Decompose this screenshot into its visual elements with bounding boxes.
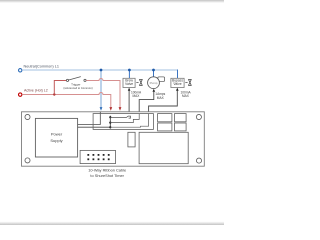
arrow trigger into controller: [119, 107, 122, 111]
mounting hole top-left: [25, 114, 30, 119]
wire neutral drop to pump: [153, 70, 155, 77]
relay contact arm top: [110, 116, 130, 118]
junction bus/controller drop: [100, 69, 103, 72]
component box C1: [128, 132, 135, 147]
wire brew valve to controller: [128, 90, 130, 117]
svg-text:Trigger: Trigger: [71, 82, 80, 86]
junction relay contact 2: [109, 122, 111, 124]
mounting hole bottom-left: [25, 158, 30, 163]
svg-text:to ShureShot Timer: to ShureShot Timer: [90, 173, 124, 178]
svg-text:Pump: Pump: [150, 81, 158, 85]
wire neutral drop to brew valve: [128, 70, 130, 78]
node L1 terminal: [19, 69, 22, 72]
svg-text:MAX: MAX: [133, 94, 141, 98]
switch S1 terminal right: [84, 79, 86, 81]
junction active/trigger branch: [53, 93, 55, 95]
arrow into bypass valve: [176, 88, 179, 91]
wire neutral feed to power supply: [78, 112, 101, 125]
svg-text:MAX: MAX: [157, 96, 165, 100]
switch S1 blade: [69, 77, 81, 80]
arrow into brew valve: [128, 88, 131, 91]
svg-text:MAX: MAX: [182, 94, 190, 98]
wire power supply to relay common: [78, 126, 111, 128]
svg-text:Power: Power: [51, 131, 63, 136]
valve symbol V1: [139, 79, 142, 85]
wire bypass valve to controller: [149, 90, 178, 113]
bypass valve B2: [171, 78, 184, 87]
wire trigger to controller: [86, 79, 120, 108]
terminal block T4: [175, 123, 187, 131]
wire neutral drop to controller: [100, 70, 102, 107]
terminal block T1: [158, 114, 172, 122]
wire neutral drop to bypass valve: [177, 70, 179, 79]
wire neutral bus: [22, 69, 177, 71]
svg-text:Supply: Supply: [50, 138, 62, 143]
connector J1 pins: [87, 154, 109, 160]
svg-text:Valve: Valve: [125, 82, 133, 86]
mounting hole bottom-right: [196, 158, 201, 163]
relay common bar: [109, 116, 111, 129]
wire trigger branch riser: [54, 81, 66, 95]
terminal block T3: [158, 123, 172, 131]
brew valve B1: [123, 78, 135, 87]
valve symbol V2: [188, 79, 191, 85]
mounting hole top-right: [196, 114, 201, 119]
svg-text:Active (Hot) L2: Active (Hot) L2: [24, 89, 48, 93]
arrow into pump: [153, 89, 156, 92]
relay K1 box: [93, 114, 153, 130]
relay contact arm bottom: [110, 114, 148, 128]
relay contact arm middle: [110, 114, 139, 123]
pump P1: [158, 77, 165, 82]
link B1 to valve symbol: [136, 82, 138, 84]
wire pump to controller: [139, 91, 154, 113]
svg-text:Neutral(Common) L1: Neutral(Common) L1: [24, 64, 59, 68]
terminal block T2: [175, 114, 187, 122]
component box C2: [139, 132, 188, 163]
node L2 terminal: [19, 93, 22, 96]
svg-text:Valve: Valve: [173, 82, 181, 86]
switch S1 terminal left: [66, 79, 68, 81]
wire active L2: [22, 93, 111, 108]
junction bus/pump drop: [152, 69, 155, 72]
junction bus/brew drop: [128, 69, 131, 72]
controller enclosure: [22, 112, 205, 166]
svg-text:(referenced to Common): (referenced to Common): [63, 86, 92, 90]
power supply U1: [35, 118, 77, 157]
junction relay contact 3: [109, 126, 111, 128]
ribbon connector J1: [80, 150, 115, 163]
link B2 to valve symbol: [185, 82, 187, 84]
junction relay contact 1: [109, 116, 111, 118]
arrow active into controller: [109, 107, 112, 111]
svg-text:10-Way Ribbon Cable: 10-Way Ribbon Cable: [88, 168, 126, 173]
arrow neutral into controller: [100, 107, 103, 111]
